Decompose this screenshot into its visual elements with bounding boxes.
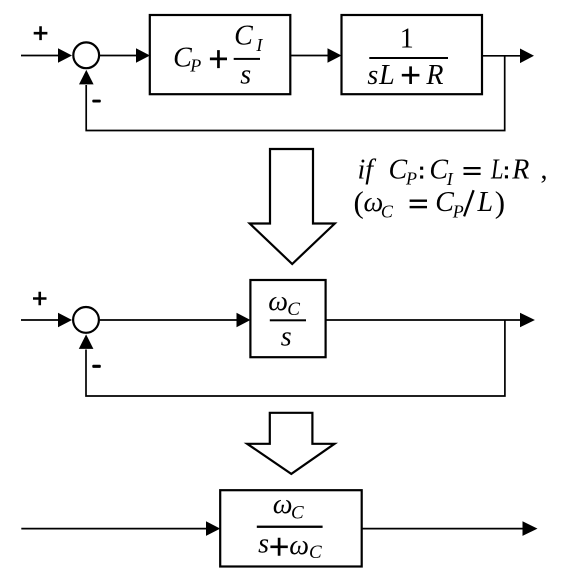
svg-text:ω: ω	[268, 286, 288, 317]
annotation line 2: equals sign	[410, 200, 427, 202]
wire: feedback loop 1	[86, 56, 505, 131]
svg-text:C: C	[435, 187, 454, 218]
svg-text:P: P	[189, 56, 201, 76]
svg-text:I: I	[446, 169, 454, 189]
svg-text:if: if	[358, 155, 377, 186]
arrowhead into block 4	[206, 521, 220, 536]
svg-text:C: C	[429, 155, 448, 186]
plus sign at summing junction 1	[34, 26, 48, 40]
annotation line 1: colon 2	[505, 166, 508, 169]
arrowhead into summing junction 1	[58, 48, 72, 63]
wire: feedback loop 2	[86, 320, 505, 396]
fraction bar wc/s	[270, 319, 306, 321]
fraction bar wc/(s+wc)	[257, 526, 323, 528]
svg-text:ω: ω	[289, 530, 309, 561]
minus sign at summing junction 1	[92, 100, 101, 103]
annotation line 1: colon	[420, 167, 423, 170]
wire: block 2 output	[482, 55, 520, 57]
svg-text:s: s	[367, 60, 378, 91]
summing junction 1 (circle)	[73, 42, 99, 68]
arrowhead into block 3	[237, 313, 251, 328]
wire: block 4 output	[362, 528, 523, 530]
svg-text:L: L	[378, 60, 395, 91]
svg-text:ω: ω	[273, 489, 293, 520]
wire: input to block 4	[21, 528, 206, 530]
wire: summing junction 1 to block 1	[100, 55, 137, 57]
wire: input to summing junction 1	[21, 55, 59, 57]
block 4: first order lag wc/(s+wc)	[220, 490, 362, 566]
svg-text:s: s	[281, 321, 292, 352]
svg-text:C: C	[287, 299, 300, 320]
wire: block 3 output	[326, 319, 520, 321]
wire: block 1 to block 2	[290, 55, 328, 57]
svg-text:L: L	[477, 187, 494, 218]
svg-text:(: (	[354, 185, 364, 220]
minus sign at summing junction 2	[92, 365, 101, 368]
plus sign at summing junction 2	[33, 292, 47, 306]
svg-text:I: I	[255, 35, 263, 55]
svg-text:C: C	[381, 202, 394, 222]
svg-text:P: P	[452, 202, 464, 222]
svg-text:s: s	[258, 529, 269, 560]
arrowhead output 2	[520, 313, 535, 328]
big hollow down arrow 1	[250, 149, 335, 264]
wire: summing junction 2 to block 3	[100, 319, 237, 321]
svg-text:C: C	[291, 503, 304, 524]
fraction bar 1/(sL+R)	[369, 57, 448, 59]
arrowhead feedback into summing junction 1	[79, 70, 94, 85]
label plus operator in block 2	[402, 66, 420, 84]
svg-text:C: C	[234, 20, 253, 51]
annotation line 1: equals sign	[464, 167, 481, 169]
svg-text:,: ,	[541, 155, 548, 186]
arrowhead into block 2	[328, 48, 342, 63]
block 3: integrator wc/s	[250, 280, 325, 357]
annotation line 2: slash	[464, 190, 474, 216]
svg-text:s: s	[240, 60, 251, 91]
svg-text:C: C	[389, 155, 408, 186]
svg-text:L: L	[490, 155, 503, 186]
arrowhead into block 1	[136, 48, 150, 63]
arrowhead feedback into summing junction 2	[79, 334, 94, 349]
summing junction 2 (circle)	[73, 307, 99, 333]
block 2: plant 1/(sL+R)	[342, 15, 483, 94]
svg-text:C: C	[309, 542, 322, 563]
fraction bar Ci/s	[234, 58, 260, 60]
label plus operator in block 4	[270, 538, 287, 556]
svg-text:R: R	[511, 155, 529, 186]
svg-text:): )	[495, 185, 505, 220]
big hollow down arrow 2	[247, 413, 334, 474]
label plus operator in block 1	[210, 50, 227, 68]
svg-text:P: P	[405, 169, 417, 189]
wire: input to summing junction 2	[21, 319, 59, 321]
svg-text:1: 1	[400, 23, 414, 54]
block 1: PI controller Cp + Ci/s	[150, 15, 290, 94]
arrowhead output 3	[523, 521, 538, 536]
svg-text:R: R	[425, 60, 443, 91]
arrowhead into summing junction 2	[58, 313, 72, 328]
arrowhead output 1	[520, 49, 534, 64]
